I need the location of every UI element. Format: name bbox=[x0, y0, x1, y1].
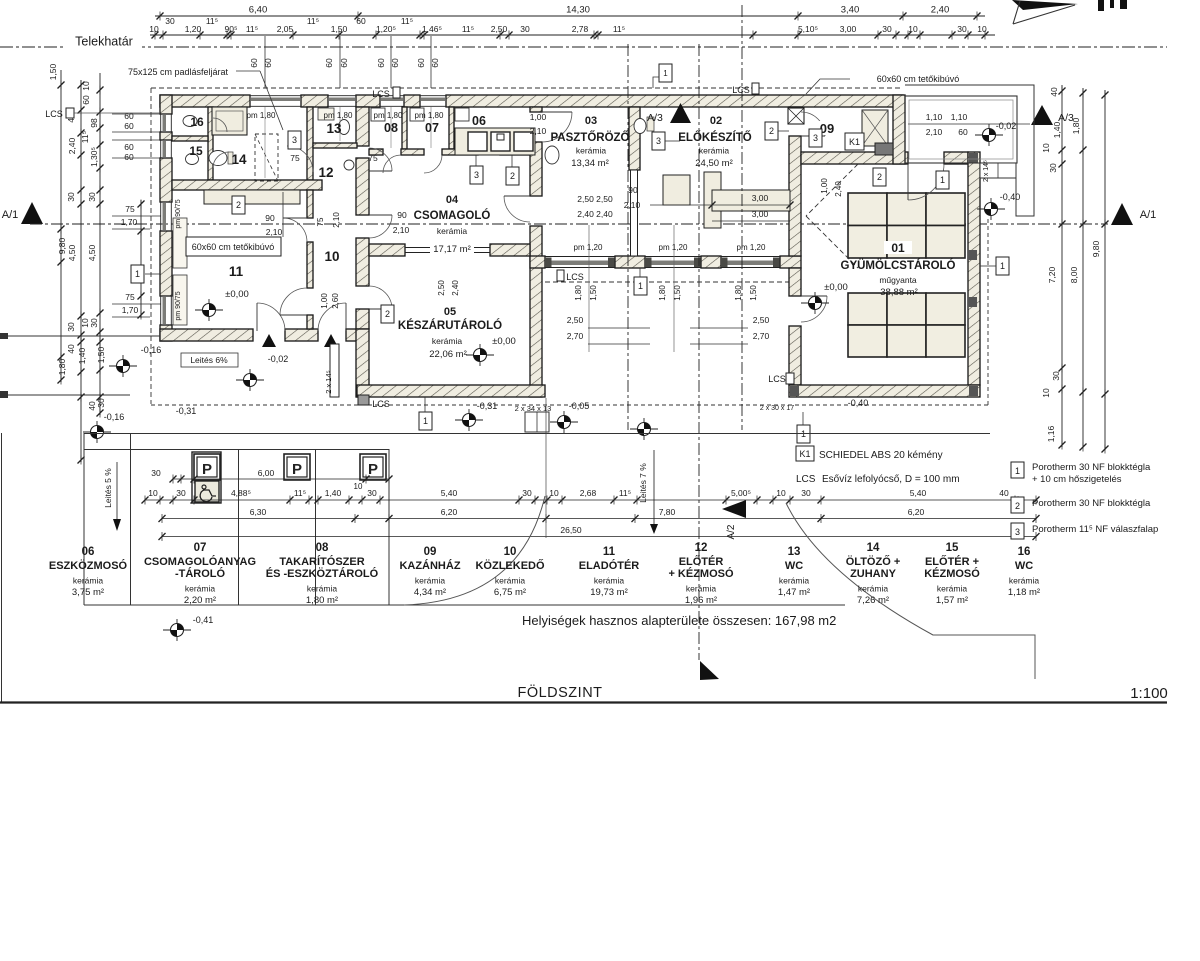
parking area edge top bbox=[84, 433, 990, 435]
equipment room 02 b tank bbox=[704, 172, 721, 228]
attic access dashed square bbox=[255, 134, 278, 181]
svg-text:1,10: 1,10 bbox=[926, 112, 943, 122]
svg-text:1,18 m²: 1,18 m² bbox=[1008, 587, 1040, 598]
dimension chain top row1 bbox=[155, 15, 985, 17]
svg-text:19,73 m²: 19,73 m² bbox=[590, 587, 628, 598]
svg-text:Porotherm 30 NF blokktégla: Porotherm 30 NF blokktégla bbox=[1032, 498, 1151, 509]
svg-text:1,16: 1,16 bbox=[1046, 425, 1056, 442]
window axis lines inside rooms bbox=[264, 107, 266, 178]
svg-text:11⁵: 11⁵ bbox=[307, 16, 319, 26]
dark block chimney K1 bbox=[875, 143, 893, 155]
svg-text:műgyanta: műgyanta bbox=[879, 275, 917, 285]
parking verticals bbox=[83, 433, 85, 605]
svg-text:1,50: 1,50 bbox=[48, 63, 58, 80]
svg-text:-TÁROLÓ: -TÁROLÓ bbox=[175, 567, 226, 580]
load bearing wall x530 bbox=[530, 107, 542, 112]
svg-text:6,20: 6,20 bbox=[908, 507, 925, 517]
site boundary vertical far left bbox=[1, 433, 3, 702]
svg-text:08: 08 bbox=[384, 121, 398, 135]
svg-text:Telekhatár: Telekhatár bbox=[75, 35, 133, 49]
parking dim chain 3 bbox=[162, 536, 1036, 538]
svg-text:30: 30 bbox=[151, 468, 161, 478]
svg-text:P: P bbox=[292, 461, 302, 478]
svg-text:30: 30 bbox=[1048, 163, 1058, 173]
svg-text:6,30: 6,30 bbox=[250, 507, 267, 517]
svg-text:11⁵: 11⁵ bbox=[206, 16, 218, 26]
svg-text:1,57 m²: 1,57 m² bbox=[936, 595, 968, 606]
svg-text:30: 30 bbox=[89, 318, 99, 328]
svg-text:LCS: LCS bbox=[372, 89, 390, 99]
svg-text:1,70: 1,70 bbox=[121, 217, 138, 227]
porch west wall bbox=[893, 95, 905, 164]
svg-text:1,50: 1,50 bbox=[673, 285, 682, 301]
svg-text:60: 60 bbox=[376, 58, 386, 68]
svg-text:30: 30 bbox=[66, 322, 76, 332]
svg-text:60: 60 bbox=[263, 58, 273, 68]
svg-text:1,00: 1,00 bbox=[530, 112, 547, 122]
washbasin room 02 bbox=[634, 119, 646, 134]
section marker A/1 right bbox=[1111, 203, 1133, 225]
gyumolcstarolo bottom wall bbox=[789, 385, 980, 397]
partition 16/15 vertical bbox=[208, 107, 213, 180]
svg-text:1,46⁵: 1,46⁵ bbox=[422, 24, 442, 34]
svg-text:1,80 m²: 1,80 m² bbox=[306, 595, 338, 606]
svg-text:1:100: 1:100 bbox=[1130, 685, 1168, 702]
washbasin room 16 bbox=[183, 116, 197, 127]
parking box top bbox=[84, 449, 389, 451]
parking dim row upper bbox=[173, 478, 389, 480]
svg-text:ELŐTÉR: ELŐTÉR bbox=[679, 555, 724, 568]
svg-text:2,50: 2,50 bbox=[437, 280, 446, 296]
svg-text:±0,00: ±0,00 bbox=[824, 282, 848, 293]
svg-text:04: 04 bbox=[446, 194, 459, 206]
gyumolcstarolo right wall bbox=[968, 152, 980, 385]
partition below changing rooms with bench bbox=[172, 180, 322, 190]
svg-text:11⁵: 11⁵ bbox=[294, 488, 306, 498]
svg-text:3: 3 bbox=[813, 133, 818, 143]
svg-text:75x125 cm padlásfeljárat: 75x125 cm padlásfeljárat bbox=[128, 67, 229, 77]
svg-text:2 x 14⁵: 2 x 14⁵ bbox=[324, 370, 333, 394]
svg-text:11⁵: 11⁵ bbox=[619, 488, 631, 498]
terrace window axis lines bbox=[588, 225, 590, 352]
svg-text:10: 10 bbox=[549, 488, 559, 498]
svg-text:11: 11 bbox=[229, 264, 244, 279]
terrace inner dashed line bbox=[545, 281, 789, 283]
svg-text:12: 12 bbox=[695, 542, 708, 554]
svg-text:4,50: 4,50 bbox=[67, 244, 77, 261]
svg-text:ÉS -ESZKÖZTÁROLÓ: ÉS -ESZKÖZTÁROLÓ bbox=[266, 567, 379, 580]
svg-text:ELŐKÉSZÍTŐ: ELŐKÉSZÍTŐ bbox=[678, 131, 752, 144]
svg-text:pm 1,20: pm 1,20 bbox=[737, 243, 766, 252]
svg-text:2,50 2,50: 2,50 2,50 bbox=[577, 194, 613, 204]
svg-text:02: 02 bbox=[710, 115, 722, 127]
svg-text:-0,05: -0,05 bbox=[569, 401, 590, 411]
svg-text:05: 05 bbox=[444, 306, 456, 318]
svg-text:CSOMAGOLÓANYAG: CSOMAGOLÓANYAG bbox=[144, 555, 256, 568]
svg-text:2: 2 bbox=[877, 172, 882, 182]
left chain ticks bbox=[58, 81, 65, 90]
wall type boxed labels bbox=[131, 265, 144, 283]
svg-text:3: 3 bbox=[656, 136, 661, 146]
svg-text:pm 90/75: pm 90/75 bbox=[175, 291, 182, 320]
parking dim chain 2 bbox=[162, 518, 1036, 520]
corner posts bbox=[969, 153, 978, 163]
svg-text:pm 1,80: pm 1,80 bbox=[324, 111, 353, 120]
leites 6% box bbox=[181, 353, 238, 367]
svg-text:16: 16 bbox=[1018, 546, 1031, 558]
window axis lines top bbox=[264, 36, 266, 88]
svg-text:1,96 m²: 1,96 m² bbox=[685, 595, 717, 606]
svg-text:2: 2 bbox=[510, 171, 515, 181]
porch canopy outline bbox=[905, 85, 1034, 216]
svg-text:pm 1,80: pm 1,80 bbox=[247, 111, 276, 120]
svg-text:2,05: 2,05 bbox=[277, 24, 294, 34]
svg-text:2: 2 bbox=[769, 126, 774, 136]
svg-text:07: 07 bbox=[425, 121, 439, 135]
svg-text:8,00: 8,00 bbox=[1069, 266, 1079, 283]
svg-text:30: 30 bbox=[882, 24, 892, 34]
svg-text:9,80: 9,80 bbox=[1091, 240, 1101, 257]
south wall keszarutarolo bbox=[357, 385, 545, 397]
svg-text:2,10: 2,10 bbox=[266, 227, 283, 237]
svg-text:kerámia: kerámia bbox=[686, 584, 717, 594]
svg-text:LCS: LCS bbox=[732, 85, 750, 95]
svg-text:3,00: 3,00 bbox=[752, 193, 769, 203]
svg-text:ELADÓTÉR: ELADÓTÉR bbox=[579, 559, 640, 572]
svg-text:90: 90 bbox=[265, 213, 275, 223]
exterior wall top bbox=[160, 95, 250, 107]
svg-text:pm 1,20: pm 1,20 bbox=[574, 243, 603, 252]
svg-text:11: 11 bbox=[603, 546, 616, 558]
svg-text:KÖZLEKEDŐ: KÖZLEKEDŐ bbox=[475, 559, 545, 572]
svg-text:3: 3 bbox=[474, 170, 479, 180]
site line left upper bbox=[0, 335, 160, 337]
partitions storage rooms 08 07 06 bbox=[402, 107, 407, 149]
chimney in wall bbox=[788, 108, 804, 124]
svg-text:75: 75 bbox=[368, 153, 378, 163]
svg-text:LCS: LCS bbox=[796, 474, 816, 485]
svg-text:40: 40 bbox=[1049, 87, 1059, 97]
partition 16/15 horizontal bbox=[172, 136, 208, 141]
svg-text:6,40: 6,40 bbox=[249, 5, 268, 16]
svg-text:2 x 14⁵: 2 x 14⁵ bbox=[983, 160, 990, 182]
svg-text:60: 60 bbox=[356, 16, 366, 26]
svg-text:WC: WC bbox=[785, 560, 803, 572]
svg-text:1,00: 1,00 bbox=[820, 178, 829, 194]
svg-text:A/3: A/3 bbox=[647, 112, 663, 124]
svg-text:2: 2 bbox=[236, 200, 241, 210]
partition 04/05 bbox=[369, 244, 405, 256]
svg-text:2,10: 2,10 bbox=[393, 225, 410, 235]
svg-text:2: 2 bbox=[1015, 501, 1020, 511]
svg-text:38,88 m²: 38,88 m² bbox=[880, 287, 918, 298]
south wall room 11 bbox=[160, 329, 253, 341]
svg-text:kerámia: kerámia bbox=[1009, 576, 1040, 586]
svg-text:pm 1,80: pm 1,80 bbox=[374, 111, 403, 120]
porch steps bbox=[980, 163, 1016, 178]
svg-text:12: 12 bbox=[318, 165, 333, 180]
gyumolcstarolo top wall bbox=[801, 152, 908, 164]
washbasin room 12 bbox=[344, 160, 354, 170]
exterior wall left bbox=[160, 95, 172, 114]
svg-text:07: 07 bbox=[194, 542, 207, 554]
svg-text:LCS: LCS bbox=[566, 272, 584, 282]
vestibule west wall thin bbox=[330, 344, 339, 397]
svg-text:60: 60 bbox=[81, 95, 91, 105]
section marker A/2 arrow bbox=[722, 500, 746, 518]
svg-text:5,40: 5,40 bbox=[441, 488, 458, 498]
svg-text:pm 1,20: pm 1,20 bbox=[659, 243, 688, 252]
svg-text:11⁵: 11⁵ bbox=[401, 16, 413, 26]
svg-text:75: 75 bbox=[125, 292, 135, 302]
svg-text:1: 1 bbox=[1015, 466, 1020, 476]
svg-text:7,26 m²: 7,26 m² bbox=[857, 595, 889, 606]
svg-text:-0,16: -0,16 bbox=[104, 412, 125, 422]
svg-text:WC: WC bbox=[1015, 560, 1033, 572]
svg-text:LCS: LCS bbox=[372, 399, 390, 409]
svg-text:15: 15 bbox=[189, 144, 203, 158]
svg-text:A/3: A/3 bbox=[1058, 112, 1074, 124]
svg-text:5,10⁵: 5,10⁵ bbox=[798, 24, 818, 34]
svg-text:90: 90 bbox=[397, 210, 407, 220]
footer line bbox=[0, 701, 1167, 703]
svg-text:3: 3 bbox=[1015, 527, 1020, 537]
svg-text:60: 60 bbox=[390, 58, 400, 68]
svg-text:P: P bbox=[368, 461, 378, 478]
section line A/3 vertical a bbox=[627, 44, 629, 430]
svg-text:17,17 m²: 17,17 m² bbox=[433, 244, 471, 255]
svg-text:1: 1 bbox=[423, 416, 428, 426]
entrance threshold arrows bbox=[262, 334, 276, 347]
equipment room 02 a bbox=[663, 175, 690, 205]
svg-text:pm 1,80: pm 1,80 bbox=[415, 111, 444, 120]
svg-text:10: 10 bbox=[504, 546, 517, 558]
svg-text:10: 10 bbox=[1041, 388, 1051, 398]
svg-text:09: 09 bbox=[424, 546, 437, 558]
svg-text:kerámia: kerámia bbox=[576, 146, 607, 156]
section line A/3 vertical b bbox=[741, 5, 743, 430]
parking dim chain detailed bbox=[145, 499, 1036, 501]
svg-text:2,40: 2,40 bbox=[67, 137, 77, 154]
svg-text:1,30⁵: 1,30⁵ bbox=[89, 147, 99, 167]
svg-text:FÖLDSZINT: FÖLDSZINT bbox=[517, 683, 602, 701]
svg-text:kerámia: kerámia bbox=[594, 576, 625, 586]
svg-text:kerámia: kerámia bbox=[415, 576, 446, 586]
svg-text:-0,31: -0,31 bbox=[477, 401, 498, 411]
svg-text:ELŐTÉR +: ELŐTÉR + bbox=[925, 555, 979, 568]
svg-text:60x60 cm tetőkibúvó: 60x60 cm tetőkibúvó bbox=[192, 242, 275, 252]
svg-text:06: 06 bbox=[82, 546, 95, 558]
svg-text:-0,40: -0,40 bbox=[848, 398, 869, 408]
svg-text:kerámia: kerámia bbox=[185, 584, 216, 594]
svg-text:5,40: 5,40 bbox=[910, 488, 927, 498]
svg-text:kerámia: kerámia bbox=[937, 584, 968, 594]
svg-text:ZUHANY: ZUHANY bbox=[850, 568, 896, 580]
svg-text:60: 60 bbox=[124, 111, 134, 121]
svg-text:kerámia: kerámia bbox=[495, 576, 526, 586]
svg-text:kerámia: kerámia bbox=[779, 576, 810, 586]
svg-text:30: 30 bbox=[96, 398, 106, 408]
section marker A/1 left bbox=[21, 202, 43, 224]
wall between pasztorozo and elokeszito bbox=[629, 107, 640, 170]
svg-text:1,47 m²: 1,47 m² bbox=[778, 587, 810, 598]
svg-text:kerámia: kerámia bbox=[307, 584, 338, 594]
load bearing wall mid x357 bbox=[356, 107, 369, 146]
section line A/2 bbox=[698, 44, 700, 660]
left dimension chain lines bbox=[60, 70, 62, 382]
svg-text:2,10: 2,10 bbox=[624, 200, 641, 210]
svg-text:10: 10 bbox=[81, 81, 91, 91]
parking sign P3 bbox=[360, 454, 386, 480]
svg-text:1,80: 1,80 bbox=[574, 285, 583, 301]
svg-text:-0,02: -0,02 bbox=[996, 121, 1017, 131]
wheelchair sign bbox=[195, 481, 219, 502]
svg-text:60: 60 bbox=[416, 58, 426, 68]
svg-text:±0,00: ±0,00 bbox=[492, 336, 516, 347]
windows in top wall bbox=[250, 95, 301, 97]
svg-text:4,34 m²: 4,34 m² bbox=[414, 587, 446, 598]
svg-text:30: 30 bbox=[367, 488, 377, 498]
svg-text:30: 30 bbox=[801, 488, 811, 498]
partition 13/12 bbox=[313, 143, 357, 148]
bench room 11 bbox=[204, 190, 300, 204]
svg-text:3,00: 3,00 bbox=[840, 24, 857, 34]
svg-text:30: 30 bbox=[520, 24, 530, 34]
svg-text:60: 60 bbox=[958, 127, 968, 137]
svg-text:2,40: 2,40 bbox=[834, 181, 843, 197]
window jamb blocks terrace band bbox=[545, 258, 552, 268]
svg-text:1,20⁵: 1,20⁵ bbox=[376, 24, 396, 34]
svg-text:+ 10 cm hőszigetelés: + 10 cm hőszigetelés bbox=[1032, 474, 1122, 485]
wall x789 between elokeszito and kazanhaz/gyumolcstarolo bbox=[789, 107, 801, 112]
svg-text:2,10: 2,10 bbox=[530, 126, 547, 136]
svg-text:08: 08 bbox=[316, 542, 329, 554]
svg-text:kerámia: kerámia bbox=[432, 336, 463, 346]
svg-text:60: 60 bbox=[324, 58, 334, 68]
svg-text:98: 98 bbox=[89, 118, 99, 128]
counter room 06 bbox=[455, 128, 535, 155]
parking sign P2 bbox=[284, 454, 310, 480]
dimension chain top row3 detailed bbox=[150, 34, 995, 36]
svg-text:ÖLTÖZŐ +: ÖLTÖZŐ + bbox=[846, 555, 901, 568]
svg-text:2,50: 2,50 bbox=[491, 24, 508, 34]
svg-text:-0,31: -0,31 bbox=[176, 406, 197, 416]
svg-text:Porotherm 30 NF blokktégla: Porotherm 30 NF blokktégla bbox=[1032, 462, 1151, 473]
svg-text:13,34 m²: 13,34 m² bbox=[571, 158, 609, 169]
svg-text:2,40 2,40: 2,40 2,40 bbox=[577, 209, 613, 219]
svg-text:4,88⁵: 4,88⁵ bbox=[231, 488, 251, 498]
windows in left wall bbox=[160, 114, 162, 132]
svg-text:3,75 m²: 3,75 m² bbox=[72, 587, 104, 598]
svg-text:90⁵: 90⁵ bbox=[225, 24, 238, 34]
svg-text:±0,00: ±0,00 bbox=[225, 289, 249, 300]
svg-text:1: 1 bbox=[940, 175, 945, 185]
svg-text:Leités 6%: Leités 6% bbox=[190, 355, 228, 365]
svg-text:1,50: 1,50 bbox=[331, 24, 348, 34]
svg-text:10: 10 bbox=[776, 488, 786, 498]
svg-text:30: 30 bbox=[66, 192, 76, 202]
svg-text:+ KÉZMOSÓ: + KÉZMOSÓ bbox=[668, 567, 734, 580]
legend wall type 3 bbox=[1011, 523, 1024, 539]
svg-text:4,50: 4,50 bbox=[87, 244, 97, 261]
shelves room 11 left wall bbox=[173, 218, 187, 268]
svg-text:6,00: 6,00 bbox=[258, 468, 275, 478]
porch floor top right bbox=[905, 96, 1017, 163]
svg-text:10: 10 bbox=[149, 24, 159, 34]
section line A/1 dash-dot bbox=[30, 223, 1108, 225]
top edge marks bbox=[1098, 0, 1104, 11]
svg-text:-0,16: -0,16 bbox=[141, 345, 162, 355]
svg-text:60: 60 bbox=[124, 152, 134, 162]
svg-text:2,40: 2,40 bbox=[451, 280, 460, 296]
door arcs bbox=[257, 303, 285, 331]
svg-text:60: 60 bbox=[249, 58, 259, 68]
right dimension chain lines bbox=[1061, 85, 1063, 447]
svg-text:-0,40: -0,40 bbox=[1000, 192, 1021, 202]
svg-text:1,40: 1,40 bbox=[325, 488, 342, 498]
svg-text:kerámia: kerámia bbox=[858, 584, 889, 594]
svg-text:10: 10 bbox=[354, 482, 363, 491]
roof valley dashed room 01 bbox=[806, 164, 858, 216]
svg-text:1,80: 1,80 bbox=[57, 358, 67, 375]
washbasin room 15 bbox=[186, 154, 199, 165]
witness line building corner to chains bbox=[545, 398, 547, 538]
north arrow top right bbox=[1012, 0, 1078, 10]
shower tray room 14 bbox=[212, 107, 247, 135]
svg-text:06: 06 bbox=[472, 114, 486, 128]
svg-text:14: 14 bbox=[231, 152, 247, 167]
svg-text:60x60 cm tetőkibúvó: 60x60 cm tetőkibúvó bbox=[877, 74, 960, 84]
svg-text:26,50: 26,50 bbox=[560, 525, 582, 535]
svg-text:2,50: 2,50 bbox=[753, 315, 770, 325]
svg-text:A/1: A/1 bbox=[1140, 209, 1157, 221]
partition 11/10 corridor bbox=[307, 190, 313, 218]
svg-text:3: 3 bbox=[292, 135, 297, 145]
svg-text:kerámia: kerámia bbox=[699, 146, 730, 156]
svg-text:kerámia: kerámia bbox=[73, 576, 104, 586]
svg-text:40: 40 bbox=[999, 488, 1009, 498]
svg-text:A/2: A/2 bbox=[726, 524, 737, 539]
storage grid shelves gyumolcstarolo lower bbox=[848, 293, 965, 357]
right chain ticks bbox=[1059, 87, 1066, 96]
svg-text:24,50 m²: 24,50 m² bbox=[695, 158, 733, 169]
svg-text:11⁵: 11⁵ bbox=[246, 24, 258, 34]
svg-text:10: 10 bbox=[148, 488, 158, 498]
svg-text:K1: K1 bbox=[799, 449, 810, 459]
svg-text:Leités 5 %: Leités 5 % bbox=[103, 468, 113, 508]
parking sign P1 bbox=[194, 454, 220, 480]
svg-text:2,68: 2,68 bbox=[580, 488, 597, 498]
annotation 60x60 tetokibuvo box bbox=[186, 237, 281, 256]
K1 label box bbox=[845, 133, 864, 150]
svg-text:2,20 m²: 2,20 m² bbox=[184, 595, 216, 606]
svg-text:Helyiségek hasznos alapterület: Helyiségek hasznos alapterülete összesen… bbox=[522, 613, 836, 628]
svg-text:75: 75 bbox=[316, 217, 325, 226]
steps south bbox=[525, 412, 549, 432]
wc room 13 bbox=[339, 120, 350, 135]
svg-text:6,75 m²: 6,75 m² bbox=[494, 587, 526, 598]
svg-text:2,78: 2,78 bbox=[572, 24, 589, 34]
svg-text:2,40: 2,40 bbox=[931, 5, 950, 16]
svg-text:30: 30 bbox=[165, 16, 175, 26]
svg-text:16: 16 bbox=[190, 115, 204, 129]
svg-text:KÉSZÁRUTÁROLÓ: KÉSZÁRUTÁROLÓ bbox=[398, 319, 502, 332]
svg-text:GYÜMÖLCSTÁROLÓ: GYÜMÖLCSTÁROLÓ bbox=[841, 259, 956, 272]
svg-text:pm 90/75: pm 90/75 bbox=[175, 199, 182, 228]
svg-text:LCS: LCS bbox=[45, 109, 63, 119]
site line left lower bbox=[0, 394, 130, 396]
svg-text:Porotherm 11⁵ NF válaszfalap: Porotherm 11⁵ NF válaszfalap bbox=[1032, 524, 1158, 535]
